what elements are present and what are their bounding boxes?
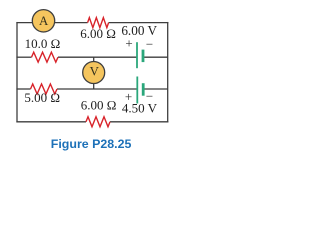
svg-text:10.0 Ω: 10.0 Ω [25, 36, 61, 51]
wire bottom rail left of resistor [16, 121, 86, 123]
battery 6.00 V long plate [136, 42, 138, 68]
battery 4.50 V long plate [136, 77, 138, 104]
resistor 6.00 ohm bottom [86, 117, 110, 127]
svg-text:4.50 V: 4.50 V [122, 100, 158, 115]
svg-text:V: V [90, 65, 100, 79]
svg-text:A: A [39, 14, 49, 28]
wire rail 2 resistor to battery [58, 56, 137, 58]
wire rail 3 left of resistor [16, 88, 30, 90]
ammeter A [32, 10, 54, 32]
wire rail 3 battery to right border [143, 88, 168, 90]
wire bottom rail right of resistor [110, 121, 168, 123]
voltmeter V [83, 62, 105, 84]
svg-text:6.00 Ω: 6.00 Ω [80, 26, 116, 41]
wire rail 3 resistor to battery [57, 88, 137, 90]
battery 6.00 V short plate [142, 50, 145, 63]
resistor 10.0 ohm [32, 52, 59, 62]
wire rail 2 left of resistor [16, 56, 31, 58]
svg-text:6.00 Ω: 6.00 Ω [81, 97, 117, 112]
wire right border [167, 22, 169, 123]
battery 4.50 V short plate [142, 83, 145, 96]
wire voltmeter branch vertical [93, 57, 95, 89]
wire left border [16, 22, 18, 123]
wire rail 2 battery to right border [143, 56, 168, 58]
resistor 5.00 ohm [31, 84, 58, 94]
wire top rail right of resistor [109, 22, 169, 24]
svg-text:−: − [146, 36, 153, 51]
resistor 6.00 ohm top [88, 18, 109, 28]
svg-text:5.00 Ω: 5.00 Ω [24, 90, 60, 105]
svg-text:6.00 V: 6.00 V [121, 23, 157, 38]
wire top rail left of resistor [16, 22, 87, 24]
svg-text:Figure P28.25: Figure P28.25 [51, 137, 132, 151]
